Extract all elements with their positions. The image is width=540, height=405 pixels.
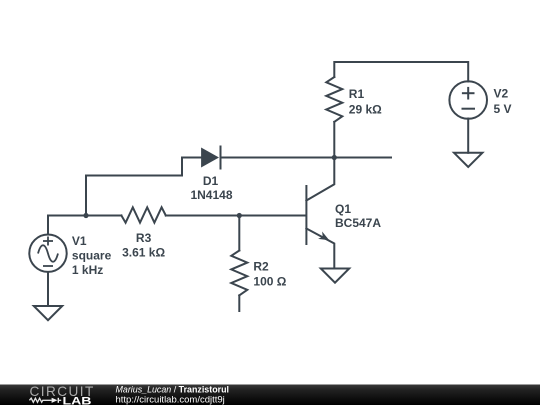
wire node B down to R2 <box>238 216 240 251</box>
svg-text:3.61 kΩ: 3.61 kΩ <box>122 246 165 260</box>
svg-text:29 kΩ: 29 kΩ <box>349 103 382 117</box>
svg-text:LAB: LAB <box>63 396 92 405</box>
svg-text:1 kHz: 1 kHz <box>72 263 103 277</box>
svg-text:1N4148: 1N4148 <box>190 188 232 202</box>
node B junction dot <box>237 213 242 218</box>
transistor Q1 base bar <box>305 186 307 244</box>
wire top rail from R1 to V2 <box>334 62 468 82</box>
wire R3 to node B <box>166 215 240 217</box>
wire node A to R3 <box>86 215 121 217</box>
svg-text:V2: V2 <box>494 87 509 101</box>
svg-text:http://circuitlab.com/cdjtt9j: http://circuitlab.com/cdjtt9j <box>116 395 225 405</box>
wire V1 top to node A <box>48 216 86 234</box>
wire V1 bottom to ground <box>47 272 49 306</box>
svg-text:Marius_Lucan / Tranzistorul: Marius_Lucan / Tranzistorul <box>116 385 229 395</box>
transistor Q1 emitter arrowhead <box>318 232 329 241</box>
node C junction dot (collector rail) <box>332 155 337 160</box>
ground under V1 <box>34 306 62 320</box>
V1 minus sign <box>43 265 53 267</box>
voltage source V1 circle <box>29 235 66 272</box>
transistor Q1 collector diagonal <box>306 158 334 201</box>
transistor Q1 emitter diagonal <box>306 229 334 269</box>
logo resistor squiggle <box>29 398 51 402</box>
resistor R1 <box>326 77 342 122</box>
svg-text:V1: V1 <box>72 234 87 248</box>
V2 minus sign <box>462 108 476 110</box>
svg-text:5 V: 5 V <box>494 102 512 116</box>
wire R2 open stub <box>238 295 240 311</box>
svg-text:R3: R3 <box>136 231 152 245</box>
V1 plus sign <box>43 237 53 246</box>
V1 sine wave <box>38 245 58 262</box>
svg-text:R1: R1 <box>349 87 365 101</box>
svg-text:Q1: Q1 <box>335 202 351 216</box>
ground under Q1 emitter <box>321 269 349 283</box>
wire V2 to ground <box>467 119 469 153</box>
voltage source V2 circle <box>449 81 487 119</box>
svg-text:D1: D1 <box>203 174 219 188</box>
resistor R3 <box>121 207 165 222</box>
svg-text:100 Ω: 100 Ω <box>253 275 286 289</box>
resistor R2 <box>231 251 247 296</box>
svg-text:R2: R2 <box>253 260 269 274</box>
wire R1 bottom to collector rail <box>333 122 335 158</box>
node A junction dot <box>83 213 88 218</box>
svg-text:square: square <box>72 249 112 263</box>
ground under V2 <box>454 153 482 167</box>
diode D1 <box>201 147 220 169</box>
wire diode branch: riser and jog from node A <box>86 158 201 216</box>
V2 plus sign <box>462 87 475 100</box>
wire collector rail horizontal <box>221 157 392 159</box>
logo diode symbol <box>52 398 62 403</box>
svg-text:BC547A: BC547A <box>335 216 381 230</box>
wire node B to base of Q1 <box>239 215 305 217</box>
